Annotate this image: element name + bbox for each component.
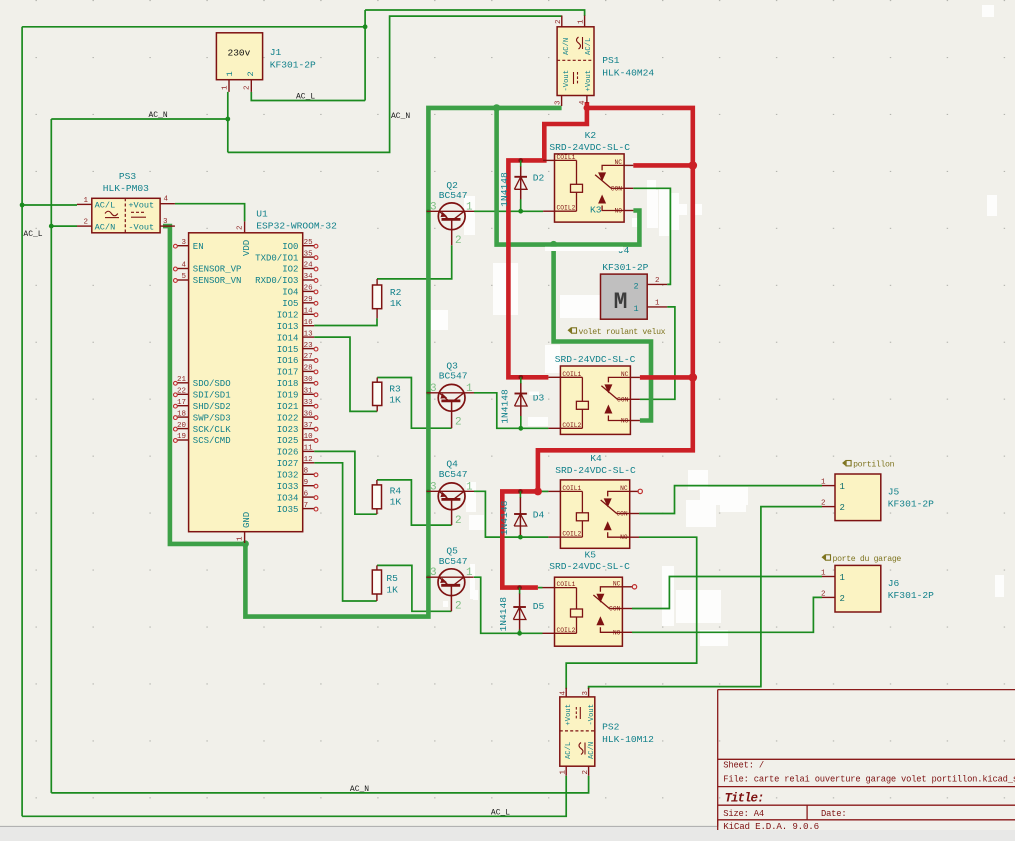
svg-text:VDD: VDD xyxy=(242,240,252,256)
svg-text:SWP/SD3: SWP/SD3 xyxy=(193,413,231,423)
svg-text:27: 27 xyxy=(304,353,313,361)
svg-text:SHD/SD2: SHD/SD2 xyxy=(193,402,231,412)
svg-text:8: 8 xyxy=(304,468,309,476)
svg-text:1N4148: 1N4148 xyxy=(499,389,510,424)
svg-text:35: 35 xyxy=(304,250,314,258)
svg-text:33: 33 xyxy=(304,399,314,407)
svg-text:BC547: BC547 xyxy=(439,371,468,382)
svg-text:GND: GND xyxy=(242,512,252,528)
svg-text:KF301-2P: KF301-2P xyxy=(888,499,934,510)
svg-text:21: 21 xyxy=(177,376,187,384)
svg-text:IO23: IO23 xyxy=(277,425,299,435)
svg-text:R4: R4 xyxy=(390,486,402,497)
svg-text:IO14: IO14 xyxy=(277,333,299,343)
svg-text:31: 31 xyxy=(304,388,314,396)
svg-text:1N4148: 1N4148 xyxy=(499,172,510,207)
svg-text:2: 2 xyxy=(821,590,826,598)
svg-text:1: 1 xyxy=(821,479,826,487)
svg-text:NO: NO xyxy=(615,208,623,215)
svg-text:CON: CON xyxy=(616,511,628,518)
svg-text:COIL1: COIL1 xyxy=(562,485,581,492)
svg-text:+Vout: +Vout xyxy=(565,704,573,726)
svg-text:IO16: IO16 xyxy=(277,356,299,366)
svg-text:J6: J6 xyxy=(888,578,900,589)
svg-text:3: 3 xyxy=(582,691,590,696)
svg-text:2: 2 xyxy=(237,225,245,230)
svg-text:File: carte relai ouverture ga: File: carte relai ouverture garage volet… xyxy=(723,775,1015,785)
svg-text:NC: NC xyxy=(615,159,623,166)
svg-text:5: 5 xyxy=(181,273,186,281)
svg-text:HLK-PM03: HLK-PM03 xyxy=(103,183,149,194)
svg-text:SRD-24VDC-SL-C: SRD-24VDC-SL-C xyxy=(555,465,636,476)
svg-text:18: 18 xyxy=(177,410,186,418)
svg-text:SRD-24VDC-SL-C: SRD-24VDC-SL-C xyxy=(555,354,636,365)
svg-text:1: 1 xyxy=(83,197,88,205)
svg-text:NO: NO xyxy=(620,534,628,541)
svg-text:AC_N: AC_N xyxy=(350,785,369,794)
svg-text:2: 2 xyxy=(582,770,590,775)
svg-text:24: 24 xyxy=(304,262,314,270)
svg-text:AC_L: AC_L xyxy=(23,230,42,239)
svg-text:IO25: IO25 xyxy=(277,436,299,446)
svg-text:1K: 1K xyxy=(390,497,402,508)
svg-text:IO27: IO27 xyxy=(277,459,299,469)
svg-text:AC_L: AC_L xyxy=(491,808,510,817)
svg-text:SCS/CMD: SCS/CMD xyxy=(193,436,231,446)
svg-text:PS2: PS2 xyxy=(602,722,620,733)
svg-text:1: 1 xyxy=(466,383,473,395)
svg-text:SDO/SDO: SDO/SDO xyxy=(193,379,231,389)
svg-text:R3: R3 xyxy=(389,384,401,395)
svg-text:PS1: PS1 xyxy=(602,55,620,66)
svg-text:NC: NC xyxy=(621,371,629,378)
svg-text:2: 2 xyxy=(455,235,462,247)
svg-text:-Vout: -Vout xyxy=(128,222,154,232)
svg-text:1: 1 xyxy=(840,573,845,583)
svg-text:HLK-10M12: HLK-10M12 xyxy=(602,734,654,745)
svg-text:SRD-24VDC-SL-C: SRD-24VDC-SL-C xyxy=(549,142,630,153)
svg-text:SRD-24VDC-SL-C: SRD-24VDC-SL-C xyxy=(549,561,630,572)
svg-text:IO34: IO34 xyxy=(277,493,299,503)
svg-text:2: 2 xyxy=(455,416,462,428)
svg-text:Q4: Q4 xyxy=(446,459,458,470)
svg-text:ESP32-WROOM-32: ESP32-WROOM-32 xyxy=(256,220,337,231)
svg-text:28: 28 xyxy=(304,365,313,373)
svg-text:IO15: IO15 xyxy=(277,345,299,355)
svg-text:HLK-40M24: HLK-40M24 xyxy=(602,67,654,78)
svg-text:SENSOR_VP: SENSOR_VP xyxy=(193,265,242,275)
svg-text:23: 23 xyxy=(304,342,314,350)
svg-text:1K: 1K xyxy=(390,298,402,309)
svg-text:IO19: IO19 xyxy=(277,391,299,401)
svg-text:2: 2 xyxy=(555,19,563,24)
svg-text:AC/N: AC/N xyxy=(563,38,571,55)
svg-text:2: 2 xyxy=(840,503,845,513)
svg-text:CON: CON xyxy=(611,185,623,192)
svg-text:13: 13 xyxy=(304,330,314,338)
svg-text:IO21: IO21 xyxy=(277,402,299,412)
svg-text:1: 1 xyxy=(466,201,473,213)
svg-text:1: 1 xyxy=(560,770,568,775)
svg-text:COIL1: COIL1 xyxy=(557,581,576,588)
svg-text:2: 2 xyxy=(840,594,845,604)
svg-text:NC: NC xyxy=(613,580,621,587)
svg-text:-Vout: -Vout xyxy=(588,704,596,726)
svg-text:3: 3 xyxy=(430,567,437,579)
svg-text:20: 20 xyxy=(177,422,187,430)
svg-text:16: 16 xyxy=(304,319,314,327)
svg-text:RXD0/IO3: RXD0/IO3 xyxy=(255,276,298,286)
svg-text:IO13: IO13 xyxy=(277,322,299,332)
svg-text:3: 3 xyxy=(163,218,168,226)
svg-text:3: 3 xyxy=(430,383,437,395)
svg-text:3: 3 xyxy=(181,239,186,247)
svg-text:2: 2 xyxy=(244,85,252,90)
svg-text:11: 11 xyxy=(304,445,314,453)
svg-text:COIL1: COIL1 xyxy=(557,154,576,161)
svg-text:IO12: IO12 xyxy=(277,311,299,321)
svg-text:COIL2: COIL2 xyxy=(562,531,581,538)
svg-text:25: 25 xyxy=(304,239,314,247)
svg-text:K5: K5 xyxy=(585,550,597,561)
svg-text:1K: 1K xyxy=(389,395,401,406)
svg-text:7: 7 xyxy=(304,502,309,510)
svg-text:2: 2 xyxy=(821,500,826,508)
svg-text:1: 1 xyxy=(578,19,586,24)
svg-text:2: 2 xyxy=(634,281,639,291)
svg-text:AC/L: AC/L xyxy=(95,201,116,211)
svg-text:1: 1 xyxy=(634,304,639,314)
svg-text:K4: K4 xyxy=(590,453,602,464)
svg-text:3: 3 xyxy=(430,481,437,493)
svg-text:NO: NO xyxy=(613,629,621,636)
svg-text:M: M xyxy=(614,289,628,315)
svg-text:KF301-2P: KF301-2P xyxy=(602,262,648,273)
svg-text:J1: J1 xyxy=(270,47,282,58)
svg-text:Size: A4: Size: A4 xyxy=(723,809,764,819)
svg-text:KF301-2P: KF301-2P xyxy=(270,59,316,70)
svg-text:CON: CON xyxy=(617,396,629,403)
svg-text:SDI/SD1: SDI/SD1 xyxy=(193,391,231,401)
svg-text:36: 36 xyxy=(304,410,314,418)
svg-text:BC547: BC547 xyxy=(439,190,468,201)
svg-text:2: 2 xyxy=(655,277,660,285)
svg-text:30: 30 xyxy=(304,376,314,384)
svg-text:4: 4 xyxy=(164,196,169,204)
svg-text:COIL2: COIL2 xyxy=(562,422,581,429)
svg-text:BC547: BC547 xyxy=(439,556,468,567)
svg-text:AC/N: AC/N xyxy=(95,222,116,232)
svg-text:9: 9 xyxy=(304,479,309,487)
svg-text:37: 37 xyxy=(304,422,313,430)
svg-text:AC_N: AC_N xyxy=(149,111,168,120)
svg-text:1K: 1K xyxy=(386,585,398,596)
svg-text:K3: K3 xyxy=(590,204,602,215)
svg-text:R5: R5 xyxy=(386,573,398,584)
svg-text:IO4: IO4 xyxy=(282,288,298,298)
svg-text:1: 1 xyxy=(221,85,229,90)
svg-text:R2: R2 xyxy=(390,287,402,298)
svg-text:COIL1: COIL1 xyxy=(562,371,581,378)
svg-text:IO33: IO33 xyxy=(277,482,299,492)
svg-text:IO0: IO0 xyxy=(282,242,298,252)
svg-text:14: 14 xyxy=(304,308,314,316)
svg-text:1: 1 xyxy=(466,567,473,579)
svg-text:29: 29 xyxy=(304,296,313,304)
svg-text:D2: D2 xyxy=(533,172,545,183)
svg-text:3: 3 xyxy=(430,201,437,213)
svg-text:2: 2 xyxy=(246,71,256,76)
svg-text:IO26: IO26 xyxy=(277,448,299,458)
svg-text:AC/L: AC/L xyxy=(585,38,593,55)
svg-text:AC_N: AC_N xyxy=(391,112,410,121)
svg-text:IO17: IO17 xyxy=(277,368,299,378)
svg-text:Q5: Q5 xyxy=(446,546,458,557)
svg-text:10: 10 xyxy=(304,433,314,441)
svg-text:2: 2 xyxy=(455,601,462,613)
svg-text:2: 2 xyxy=(83,219,88,227)
svg-text:-Vout: -Vout xyxy=(563,70,571,92)
svg-text:1N4148: 1N4148 xyxy=(498,597,509,632)
svg-text:J5: J5 xyxy=(888,486,900,497)
svg-text:19: 19 xyxy=(177,433,186,441)
svg-text:Sheet: /: Sheet: / xyxy=(723,760,764,770)
svg-text:KF301-2P: KF301-2P xyxy=(888,590,934,601)
svg-text:IO22: IO22 xyxy=(277,413,299,423)
svg-text:Date:: Date: xyxy=(821,809,846,819)
svg-text:CON: CON xyxy=(609,606,621,613)
svg-text:D4: D4 xyxy=(533,509,545,520)
svg-text:12: 12 xyxy=(304,456,313,464)
svg-text:+Vout: +Vout xyxy=(585,70,593,92)
svg-text:4: 4 xyxy=(181,262,186,270)
svg-text:porte du garage: porte du garage xyxy=(833,554,902,564)
svg-text:17: 17 xyxy=(177,399,186,407)
svg-text:1: 1 xyxy=(225,71,235,76)
svg-text:AC/N: AC/N xyxy=(588,742,596,759)
svg-text:1: 1 xyxy=(840,482,845,492)
svg-text:U1: U1 xyxy=(256,209,268,220)
svg-text:EN: EN xyxy=(193,242,204,252)
svg-text:AC/L: AC/L xyxy=(565,742,573,759)
svg-text:26: 26 xyxy=(304,285,314,293)
svg-text:K2: K2 xyxy=(585,130,597,141)
svg-text:3: 3 xyxy=(555,100,563,105)
svg-text:1: 1 xyxy=(821,570,826,578)
svg-text:COIL2: COIL2 xyxy=(557,627,576,634)
svg-text:6: 6 xyxy=(304,490,309,498)
svg-text:IO5: IO5 xyxy=(282,299,298,309)
svg-text:4: 4 xyxy=(579,100,587,105)
svg-text:IO32: IO32 xyxy=(277,471,299,481)
svg-text:NC: NC xyxy=(620,485,628,492)
svg-text:4: 4 xyxy=(560,691,568,696)
svg-text:portillon: portillon xyxy=(853,460,895,470)
svg-text:SENSOR_VN: SENSOR_VN xyxy=(193,276,242,286)
svg-text:IO18: IO18 xyxy=(277,379,299,389)
svg-text:SCK/CLK: SCK/CLK xyxy=(193,425,231,435)
svg-text:COIL2: COIL2 xyxy=(557,205,576,212)
svg-text:Title:: Title: xyxy=(725,791,764,805)
svg-text:KiCad E.D.A. 9.0.6: KiCad E.D.A. 9.0.6 xyxy=(723,821,819,832)
svg-text:1N4148: 1N4148 xyxy=(499,500,510,535)
svg-text:IO2: IO2 xyxy=(282,265,298,275)
svg-text:NO: NO xyxy=(621,418,629,425)
svg-text:2: 2 xyxy=(455,515,462,527)
svg-text:22: 22 xyxy=(177,388,186,396)
svg-text:volet roulant velux: volet roulant velux xyxy=(579,327,666,337)
svg-text:PS3: PS3 xyxy=(119,171,137,182)
svg-text:1: 1 xyxy=(237,536,245,541)
svg-text:AC_L: AC_L xyxy=(296,92,315,101)
svg-text:TXD0/IO1: TXD0/IO1 xyxy=(255,253,298,263)
svg-text:230v: 230v xyxy=(228,48,251,59)
svg-text:BC547: BC547 xyxy=(439,469,468,480)
svg-text:1: 1 xyxy=(655,300,660,308)
svg-text:IO35: IO35 xyxy=(277,505,299,515)
svg-text:D5: D5 xyxy=(533,601,545,612)
svg-text:1: 1 xyxy=(466,481,473,493)
svg-text:+Vout: +Vout xyxy=(128,201,154,211)
svg-text:34: 34 xyxy=(304,273,314,281)
